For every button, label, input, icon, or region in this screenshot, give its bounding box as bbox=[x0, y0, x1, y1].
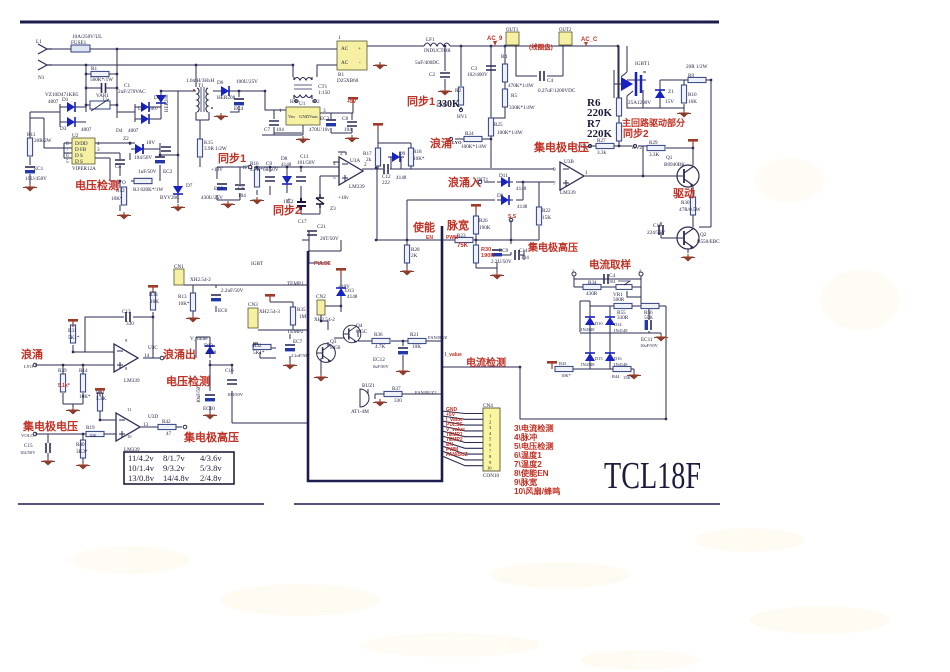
svg-text:HER208: HER208 bbox=[217, 95, 236, 101]
svg-text:R37: R37 bbox=[392, 386, 401, 392]
svg-text:14: 14 bbox=[144, 353, 150, 359]
svg-text:FAN/BUZ: FAN/BUZ bbox=[446, 452, 468, 458]
svg-text:IN4148: IN4148 bbox=[614, 328, 628, 333]
svg-text:XH2.54-3: XH2.54-3 bbox=[259, 309, 280, 315]
svg-text:10K*: 10K* bbox=[111, 196, 123, 202]
svg-text:TEMP2: TEMP2 bbox=[287, 329, 304, 335]
svg-text:U2: U2 bbox=[72, 133, 79, 139]
svg-text:OUT1: OUT1 bbox=[506, 28, 519, 33]
svg-text:2uF/270VAC: 2uF/270VAC bbox=[118, 89, 146, 95]
svg-text:3: 3 bbox=[323, 108, 326, 114]
svg-text:47: 47 bbox=[166, 431, 172, 437]
svg-text:20T/50V: 20T/50V bbox=[320, 236, 339, 242]
svg-text:R29: R29 bbox=[649, 140, 658, 146]
svg-text:47R/0.5W: 47R/0.5W bbox=[679, 207, 701, 213]
svg-text:同步2: 同步2 bbox=[623, 127, 649, 140]
svg-text:D12: D12 bbox=[204, 343, 213, 349]
svg-text:224/50V: 224/50V bbox=[647, 230, 665, 236]
svg-text:2k: 2k bbox=[366, 157, 372, 163]
svg-text:AC_C: AC_C bbox=[581, 37, 598, 43]
svg-text:脉宽: 脉宽 bbox=[446, 218, 469, 232]
svg-text:EC2: EC2 bbox=[163, 169, 173, 175]
svg-text:5uF/400DC: 5uF/400DC bbox=[415, 60, 440, 66]
svg-text:XH2.54-2: XH2.54-2 bbox=[190, 277, 211, 283]
svg-text:PULSE: PULSE bbox=[314, 261, 331, 267]
svg-text:LM339: LM339 bbox=[349, 184, 365, 190]
svg-text:5/3.8v: 5/3.8v bbox=[200, 463, 222, 473]
svg-text:4\脉冲: 4\脉冲 bbox=[514, 432, 537, 442]
svg-text:10K: 10K bbox=[150, 299, 159, 305]
svg-text:C13: C13 bbox=[122, 309, 131, 315]
svg-text:LYO: LYO bbox=[24, 364, 34, 369]
svg-text:D9: D9 bbox=[399, 151, 406, 157]
svg-text:100U/25V: 100U/25V bbox=[236, 79, 258, 85]
svg-text:430U/25V: 430U/25V bbox=[201, 195, 223, 201]
svg-text:+18v: +18v bbox=[338, 195, 349, 201]
svg-text:2: 2 bbox=[639, 268, 641, 273]
svg-text:560K*/1W: 560K*/1W bbox=[90, 77, 113, 83]
svg-text:222: 222 bbox=[382, 180, 390, 186]
svg-text:10K*: 10K* bbox=[413, 156, 425, 162]
svg-text:15K*: 15K* bbox=[623, 375, 633, 380]
svg-text:102/400V: 102/400V bbox=[467, 72, 488, 78]
svg-text:同步2: 同步2 bbox=[273, 203, 301, 217]
svg-text:Q2: Q2 bbox=[700, 232, 707, 238]
svg-text:R22: R22 bbox=[542, 208, 551, 214]
svg-text:8050: 8050 bbox=[330, 345, 341, 351]
svg-text:330: 330 bbox=[126, 321, 134, 327]
svg-text:XH2.54-2: XH2.54-2 bbox=[314, 317, 335, 323]
svg-text:R10: R10 bbox=[688, 92, 697, 98]
svg-text:6\温度1: 6\温度1 bbox=[514, 450, 542, 460]
svg-text:EC4: EC4 bbox=[234, 106, 244, 112]
svg-text:104/50V: 104/50V bbox=[227, 392, 244, 397]
svg-text:2.2U/50V: 2.2U/50V bbox=[491, 259, 512, 265]
svg-text:10U/450V: 10U/450V bbox=[25, 176, 47, 182]
svg-text:2/4.8v: 2/4.8v bbox=[200, 473, 222, 483]
svg-text:R3 820K*/1W: R3 820K*/1W bbox=[133, 187, 164, 193]
svg-text:330R: 330R bbox=[617, 315, 629, 321]
svg-text:B550/EBC: B550/EBC bbox=[697, 239, 720, 245]
svg-text:U3A: U3A bbox=[350, 158, 360, 164]
svg-text:TEMP1: TEMP1 bbox=[287, 281, 304, 287]
svg-text:R30: R30 bbox=[681, 200, 690, 206]
svg-text:浪涌: 浪涌 bbox=[430, 136, 452, 150]
svg-text:电压检测: 电压检测 bbox=[75, 178, 119, 192]
svg-text:104: 104 bbox=[609, 279, 616, 284]
svg-text:O 2: O 2 bbox=[312, 99, 320, 105]
svg-text:D25XB60: D25XB60 bbox=[337, 78, 359, 84]
svg-text:102/50V: 102/50V bbox=[20, 450, 36, 455]
svg-text:100K*1/4W: 100K*1/4W bbox=[497, 130, 523, 136]
svg-text:7\温度2: 7\温度2 bbox=[514, 459, 542, 469]
svg-text:4148: 4148 bbox=[517, 204, 528, 210]
svg-text:13/0.8v: 13/0.8v bbox=[128, 473, 155, 483]
svg-text:AC: AC bbox=[341, 60, 349, 66]
svg-text:EC12: EC12 bbox=[373, 357, 385, 363]
svg-text:D8: D8 bbox=[497, 193, 504, 199]
svg-text:20R/2W: 20R/2W bbox=[34, 138, 52, 144]
svg-text:U3B: U3B bbox=[564, 159, 574, 165]
svg-text:10/1.4v: 10/1.4v bbox=[128, 463, 155, 473]
svg-text:R14: R14 bbox=[79, 368, 88, 374]
svg-text:4148: 4148 bbox=[281, 162, 292, 168]
svg-text:C7: C7 bbox=[264, 127, 270, 133]
svg-text:EC6: EC6 bbox=[218, 308, 228, 314]
svg-text:N1: N1 bbox=[38, 75, 45, 81]
svg-text:330K*1/4W: 330K*1/4W bbox=[509, 105, 535, 111]
svg-text:9: 9 bbox=[553, 167, 556, 173]
svg-text:主回路驱动部分: 主回路驱动部分 bbox=[622, 117, 685, 128]
svg-text:D10: D10 bbox=[595, 321, 603, 326]
svg-text:R44: R44 bbox=[612, 374, 620, 379]
svg-text:20R 1/2W: 20R 1/2W bbox=[686, 64, 708, 70]
svg-text:R42: R42 bbox=[162, 419, 171, 425]
svg-text:190K: 190K bbox=[479, 225, 491, 231]
svg-text:10K*: 10K* bbox=[79, 394, 91, 400]
svg-text:1M: 1M bbox=[299, 314, 307, 320]
svg-text:R4: R4 bbox=[501, 54, 507, 60]
svg-text:C17: C17 bbox=[298, 219, 307, 225]
svg-text:INDUCTOR: INDUCTOR bbox=[424, 48, 451, 54]
svg-text:9\脉宽: 9\脉宽 bbox=[514, 477, 538, 487]
svg-text:EC1: EC1 bbox=[34, 166, 44, 172]
svg-text:2K: 2K bbox=[411, 253, 418, 259]
svg-text:VOLO: VOLO bbox=[21, 433, 34, 438]
svg-text:FAN/BUZ: FAN/BUZ bbox=[428, 335, 448, 340]
svg-text:470K*1/4W: 470K*1/4W bbox=[508, 83, 534, 89]
svg-text:TCL18F: TCL18F bbox=[604, 455, 701, 497]
svg-text:1: 1 bbox=[338, 35, 341, 41]
svg-text:10: 10 bbox=[127, 434, 132, 439]
svg-text:+: + bbox=[358, 46, 361, 52]
svg-text:VIPER12A: VIPER12A bbox=[72, 166, 96, 172]
svg-text:R32: R32 bbox=[253, 343, 262, 349]
svg-text:R25: R25 bbox=[494, 122, 503, 128]
svg-text:IN4148: IN4148 bbox=[581, 362, 595, 367]
svg-text:U: U bbox=[103, 97, 107, 103]
svg-text:16K: 16K bbox=[688, 99, 697, 105]
svg-text:1或2: 1或2 bbox=[283, 197, 294, 205]
svg-text:Z1: Z1 bbox=[668, 89, 674, 95]
svg-text:10uF/50V: 10uF/50V bbox=[640, 343, 659, 348]
svg-text:3.3k: 3.3k bbox=[597, 150, 606, 156]
svg-text:U3D: U3D bbox=[148, 414, 158, 420]
svg-text:10: 10 bbox=[487, 466, 492, 471]
svg-text:D2: D2 bbox=[138, 106, 145, 112]
svg-text:C6: C6 bbox=[238, 186, 244, 192]
svg-text:Vout: Vout bbox=[309, 114, 318, 119]
svg-text:9/3.2v: 9/3.2v bbox=[163, 463, 185, 473]
svg-text:R1: R1 bbox=[91, 66, 97, 72]
svg-text:470U/16v: 470U/16v bbox=[309, 127, 330, 133]
svg-text:4148: 4148 bbox=[206, 350, 217, 356]
svg-text:104/50V: 104/50V bbox=[134, 155, 152, 161]
svg-text:浪涌出: 浪涌出 bbox=[163, 347, 196, 361]
svg-text:500R: 500R bbox=[613, 297, 625, 303]
svg-text:-: - bbox=[359, 60, 361, 66]
svg-text:15K: 15K bbox=[542, 215, 551, 221]
svg-text:D S: D S bbox=[75, 159, 83, 165]
svg-text:Vin: Vin bbox=[288, 114, 295, 119]
svg-text:R39: R39 bbox=[58, 368, 67, 374]
svg-text:LM339: LM339 bbox=[124, 378, 140, 384]
svg-text:10K*: 10K* bbox=[178, 301, 190, 307]
svg-text:C4: C4 bbox=[547, 78, 553, 84]
svg-text:IN4148: IN4148 bbox=[581, 327, 595, 332]
svg-text:5K1*: 5K1* bbox=[253, 350, 265, 356]
svg-text:Z2: Z2 bbox=[123, 136, 129, 142]
svg-text:集电极高压: 集电极高压 bbox=[183, 430, 239, 444]
svg-text:Z3: Z3 bbox=[330, 206, 336, 212]
svg-text:同步1: 同步1 bbox=[218, 151, 246, 165]
svg-text:R31: R31 bbox=[68, 328, 77, 334]
svg-text:R43: R43 bbox=[559, 361, 567, 366]
svg-text:3K3*: 3K3* bbox=[76, 449, 88, 455]
svg-text:LF1: LF1 bbox=[426, 37, 435, 43]
svg-text:D6: D6 bbox=[217, 80, 224, 86]
svg-text:101/50V: 101/50V bbox=[297, 160, 315, 166]
svg-text:浪涌入: 浪涌入 bbox=[448, 175, 481, 189]
svg-text:5.1k*: 5.1k* bbox=[58, 383, 70, 389]
svg-text:同步1: 同步1 bbox=[407, 94, 435, 108]
svg-text:D14: D14 bbox=[614, 322, 622, 327]
svg-text:R33: R33 bbox=[149, 292, 158, 298]
svg-text:AT1-4M: AT1-4M bbox=[351, 409, 369, 415]
svg-text:104: 104 bbox=[276, 127, 284, 133]
svg-text:FUSE1: FUSE1 bbox=[71, 40, 87, 46]
svg-text:104: 104 bbox=[344, 127, 352, 133]
svg-text:1: 1 bbox=[572, 268, 574, 273]
svg-text:R2: R2 bbox=[455, 88, 461, 94]
svg-text:B0940BK: B0940BK bbox=[664, 162, 685, 168]
svg-text:4007: 4007 bbox=[148, 106, 159, 112]
svg-text:(线圈盘): (线圈盘) bbox=[529, 42, 553, 51]
svg-text:HV2: HV2 bbox=[632, 145, 642, 151]
svg-text:10\风扇/蜂鸣: 10\风扇/蜂鸣 bbox=[514, 486, 560, 496]
svg-text:R26: R26 bbox=[479, 218, 488, 224]
svg-text:1uF/50V: 1uF/50V bbox=[138, 169, 157, 175]
svg-text:13: 13 bbox=[143, 422, 149, 428]
svg-text:5: 5 bbox=[333, 175, 336, 181]
svg-text:10K: 10K bbox=[412, 344, 421, 350]
svg-text:EC9: EC9 bbox=[499, 248, 509, 254]
svg-text:2: 2 bbox=[340, 151, 343, 157]
svg-text:3.3K: 3.3K bbox=[649, 152, 659, 158]
svg-text:EN: EN bbox=[426, 235, 433, 241]
svg-text:190K: 190K bbox=[481, 253, 494, 259]
svg-text:4007: 4007 bbox=[128, 128, 139, 134]
svg-text:CN3: CN3 bbox=[248, 302, 258, 308]
svg-text:R18: R18 bbox=[413, 149, 422, 155]
svg-text:D15: D15 bbox=[595, 356, 603, 361]
svg-text:8/1.7v: 8/1.7v bbox=[163, 453, 185, 463]
svg-text:R21: R21 bbox=[410, 332, 419, 338]
svg-text:使能: 使能 bbox=[412, 220, 435, 234]
svg-text:集电极高压: 集电极高压 bbox=[527, 241, 578, 254]
svg-text:50K: 50K bbox=[644, 315, 653, 321]
svg-text:R35: R35 bbox=[297, 307, 306, 313]
svg-text:R24: R24 bbox=[465, 131, 474, 137]
svg-text:100K*1/4W: 100K*1/4W bbox=[461, 144, 487, 150]
svg-text:330: 330 bbox=[394, 398, 402, 404]
svg-text:3.9R 1/2W: 3.9R 1/2W bbox=[204, 146, 227, 152]
svg-text:LYO: LYO bbox=[452, 140, 462, 145]
svg-text:4/3.6v: 4/3.6v bbox=[200, 453, 222, 463]
svg-text:4: 4 bbox=[333, 161, 336, 167]
svg-text:2.2uF/50V: 2.2uF/50V bbox=[221, 288, 244, 294]
svg-text:S.S: S.S bbox=[508, 214, 517, 220]
svg-text:7: 7 bbox=[553, 181, 556, 187]
svg-text:驱动: 驱动 bbox=[673, 186, 695, 200]
svg-text:R34: R34 bbox=[588, 280, 597, 286]
svg-text:1: 1 bbox=[279, 108, 282, 114]
svg-text:D5: D5 bbox=[154, 95, 161, 101]
svg-text:14/4.8v: 14/4.8v bbox=[163, 473, 190, 483]
svg-text:BUZ1: BUZ1 bbox=[362, 383, 375, 389]
svg-text:CN2: CN2 bbox=[316, 294, 326, 300]
svg-text:FAN/BUZ2: FAN/BUZ2 bbox=[415, 390, 437, 395]
svg-text:集电极电压: 集电极电压 bbox=[22, 419, 78, 433]
svg-text:Q1: Q1 bbox=[666, 155, 673, 161]
svg-text:EC3: EC3 bbox=[320, 116, 330, 122]
svg-text:EC5: EC5 bbox=[214, 186, 224, 192]
svg-text:PWM: PWM bbox=[446, 235, 458, 241]
svg-text:1: 1 bbox=[585, 170, 588, 176]
svg-text:R27: R27 bbox=[597, 138, 606, 144]
svg-text:4.7K: 4.7K bbox=[375, 344, 385, 350]
svg-text:R23: R23 bbox=[457, 233, 466, 239]
svg-text:D7: D7 bbox=[186, 183, 193, 189]
svg-text:10K*: 10K* bbox=[561, 373, 571, 378]
svg-text:IGBT: IGBT bbox=[251, 261, 264, 267]
svg-text:C2: C2 bbox=[429, 72, 435, 78]
svg-text:D1: D1 bbox=[62, 97, 69, 103]
svg-text:CN4: CN4 bbox=[483, 403, 493, 409]
svg-text:电流取样: 电流取样 bbox=[589, 258, 631, 271]
svg-text:IGBT1: IGBT1 bbox=[635, 61, 650, 67]
svg-text:BYV26C: BYV26C bbox=[160, 195, 180, 201]
svg-text:R13: R13 bbox=[178, 294, 187, 300]
svg-text:R36: R36 bbox=[374, 332, 383, 338]
svg-text:R40: R40 bbox=[76, 442, 85, 448]
svg-text:T1: T1 bbox=[198, 83, 204, 89]
svg-text:11/4.2v: 11/4.2v bbox=[128, 453, 154, 463]
svg-text:430R: 430R bbox=[586, 291, 598, 297]
svg-text:5.3K: 5.3K bbox=[96, 396, 106, 402]
svg-text:电压检测: 电压检测 bbox=[166, 374, 210, 388]
svg-text:EC10: EC10 bbox=[203, 406, 215, 412]
svg-text:4148: 4148 bbox=[516, 186, 527, 192]
svg-text:HV1: HV1 bbox=[457, 114, 467, 120]
svg-text:CON10: CON10 bbox=[483, 473, 500, 479]
svg-text:0uF/50V: 0uF/50V bbox=[373, 364, 389, 369]
svg-text:HER208: HER208 bbox=[165, 94, 170, 112]
svg-text:C14: C14 bbox=[519, 248, 528, 254]
svg-text:4007: 4007 bbox=[48, 99, 59, 105]
svg-text:集电极电压: 集电极电压 bbox=[533, 140, 589, 154]
svg-text:V_value: V_value bbox=[190, 336, 208, 342]
svg-text:浪涌: 浪涌 bbox=[21, 347, 43, 361]
svg-text:5\电压检测: 5\电压检测 bbox=[514, 441, 554, 451]
svg-text:H O: H O bbox=[290, 99, 299, 105]
svg-text:+5V: +5V bbox=[347, 99, 357, 105]
svg-text:4007: 4007 bbox=[81, 127, 92, 133]
svg-text:2.2uF/50V: 2.2uF/50V bbox=[291, 353, 311, 358]
svg-text:I_value: I_value bbox=[445, 352, 462, 358]
svg-text:EC7: EC7 bbox=[293, 339, 303, 345]
svg-text:OUT2: OUT2 bbox=[559, 28, 572, 33]
svg-text:C21: C21 bbox=[317, 224, 326, 230]
svg-text:CN1: CN1 bbox=[174, 264, 184, 270]
svg-text:IN4148: IN4148 bbox=[614, 362, 628, 367]
svg-text:104: 104 bbox=[238, 193, 246, 199]
svg-text:0.27uF/1200VDC: 0.27uF/1200VDC bbox=[538, 88, 576, 94]
svg-text:HV1: HV1 bbox=[243, 165, 253, 171]
svg-text:R19: R19 bbox=[86, 425, 95, 431]
svg-text:25A1200V: 25A1200V bbox=[628, 100, 651, 106]
svg-text:15V: 15V bbox=[665, 99, 674, 105]
svg-text:4148: 4148 bbox=[347, 294, 358, 300]
svg-text:3\电流检测: 3\电流检测 bbox=[514, 423, 554, 433]
svg-text:805C: 805C bbox=[356, 329, 368, 335]
svg-text:1:150: 1:150 bbox=[318, 90, 330, 96]
svg-text:D11: D11 bbox=[499, 173, 508, 179]
svg-text:D16: D16 bbox=[614, 356, 622, 361]
svg-text:104: 104 bbox=[521, 255, 529, 261]
svg-text:+18V: +18V bbox=[211, 167, 223, 173]
svg-text:D3: D3 bbox=[60, 126, 67, 132]
svg-text:U3C: U3C bbox=[148, 345, 158, 351]
svg-text:C16: C16 bbox=[225, 368, 234, 374]
svg-text:75K: 75K bbox=[457, 243, 469, 249]
svg-text:AC: AC bbox=[341, 46, 349, 52]
svg-text:11: 11 bbox=[127, 407, 132, 412]
svg-text:LM339: LM339 bbox=[560, 190, 576, 196]
svg-text:C18: C18 bbox=[653, 223, 662, 229]
svg-text:4148: 4148 bbox=[396, 175, 407, 181]
svg-text:电流检测: 电流检测 bbox=[466, 356, 506, 369]
svg-text:8\使能EN: 8\使能EN bbox=[514, 468, 549, 478]
svg-text:U1: U1 bbox=[299, 101, 306, 107]
svg-text:3: 3 bbox=[97, 147, 100, 153]
svg-text:10K: 10K bbox=[89, 433, 97, 438]
svg-text:18V: 18V bbox=[146, 140, 155, 146]
svg-text:R5: R5 bbox=[511, 93, 517, 99]
svg-text:R9: R9 bbox=[688, 73, 694, 79]
svg-text:C15: C15 bbox=[24, 443, 33, 449]
svg-text:C8: C8 bbox=[342, 116, 348, 122]
svg-text:D4: D4 bbox=[116, 128, 123, 134]
svg-text:5: 5 bbox=[66, 159, 69, 165]
svg-text:C8: C8 bbox=[115, 164, 121, 170]
svg-text:L1: L1 bbox=[36, 39, 42, 45]
svg-text:68/50V: 68/50V bbox=[263, 167, 279, 173]
svg-text:5K1*: 5K1* bbox=[68, 335, 80, 341]
svg-text:330K: 330K bbox=[437, 99, 460, 110]
